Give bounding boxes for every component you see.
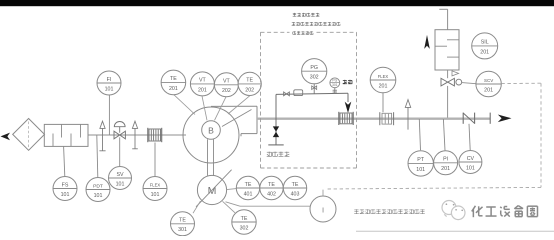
lead line to FI 101 bbox=[108, 95, 110, 135]
svg-text:PG: PG bbox=[310, 65, 318, 71]
svg-text:401: 401 bbox=[244, 191, 253, 197]
watermark logo icon bbox=[442, 201, 465, 220]
outlet flow arrow bbox=[498, 115, 512, 123]
svg-text:PI: PI bbox=[443, 157, 448, 163]
instrument bubble TE 302 bbox=[232, 210, 256, 234]
silencer vent pipe bbox=[439, 9, 447, 29]
instrument bubble VT 202 bbox=[214, 73, 238, 97]
tank outlet to control valve bbox=[448, 70, 459, 78]
controller circle I bbox=[310, 190, 336, 222]
boundary caption line 1 bbox=[293, 13, 320, 17]
svg-text:301: 301 bbox=[332, 83, 338, 87]
svg-text:202: 202 bbox=[245, 87, 254, 93]
lead line to PT 101 bbox=[419, 119, 420, 150]
boundary caption line 2 bbox=[292, 22, 341, 26]
lead line to FLEX 201 bbox=[382, 93, 384, 112]
svg-text:101: 101 bbox=[151, 192, 160, 198]
instrument bubble VT 201 bbox=[190, 72, 214, 96]
svg-text:PDT: PDT bbox=[93, 183, 103, 189]
svg-text:FLEX: FLEX bbox=[150, 182, 161, 187]
svg-text:201: 201 bbox=[198, 87, 207, 93]
instrument bubble FLEX 101 bbox=[143, 177, 167, 201]
instrument bubble TE 301 bbox=[171, 212, 195, 236]
svg-text:201: 201 bbox=[484, 87, 493, 93]
blower B (centrifugal fan volute) bbox=[183, 106, 257, 163]
lead line to PDT 101 bbox=[97, 135, 98, 177]
svg-text:101: 101 bbox=[116, 181, 125, 187]
instrument signal dashed line SCV-controller bbox=[326, 83, 541, 189]
tiny note tag bbox=[343, 80, 353, 84]
svg-text:302: 302 bbox=[310, 75, 319, 81]
flexible joint on discharge bbox=[339, 112, 353, 125]
instrument bubble SCV 201 bbox=[476, 71, 501, 96]
instrument bubble FI 101 bbox=[97, 71, 121, 95]
vent to atmosphere (left) bbox=[99, 121, 105, 151]
lead line to CV 101 bbox=[469, 124, 470, 150]
blowoff control valve bbox=[441, 78, 476, 117]
svg-text:201: 201 bbox=[480, 49, 489, 55]
svg-text:101: 101 bbox=[61, 192, 70, 198]
instrument bubble FLEX 201 bbox=[370, 67, 396, 93]
svg-text:TE: TE bbox=[241, 216, 248, 222]
svg-text:101: 101 bbox=[416, 167, 425, 173]
instrument bubble TE 402 bbox=[260, 176, 283, 199]
svg-text:202: 202 bbox=[222, 88, 231, 94]
svg-text:201: 201 bbox=[441, 166, 450, 172]
silencer tank bbox=[435, 30, 459, 70]
motor M bbox=[196, 170, 232, 207]
vent to atmosphere (right of valve) bbox=[132, 121, 138, 149]
svg-text:TE: TE bbox=[292, 182, 299, 188]
svg-text:101: 101 bbox=[105, 86, 114, 92]
instrument bubble PG 302 bbox=[302, 59, 327, 84]
instrument bubble SV 101 bbox=[109, 167, 132, 190]
instrument bubble PI 201 bbox=[434, 151, 458, 175]
nitrogen purge bypass line bbox=[276, 93, 348, 102]
svg-text:SV: SV bbox=[116, 172, 124, 178]
svg-text:TE: TE bbox=[179, 218, 186, 224]
svg-text:403: 403 bbox=[291, 191, 300, 197]
svg-text:PG: PG bbox=[332, 79, 337, 83]
inlet pipe bbox=[88, 134, 186, 136]
svg-text:TE: TE bbox=[268, 182, 275, 188]
gauge PG 301 (small) with root valve bbox=[330, 78, 340, 94]
instrument bubble TE 201 bbox=[161, 70, 186, 95]
svg-text:I: I bbox=[322, 206, 324, 215]
svg-text:201: 201 bbox=[379, 83, 388, 89]
svg-text:101: 101 bbox=[94, 193, 103, 199]
lead line to FS 101 bbox=[64, 146, 65, 176]
svg-text:B: B bbox=[208, 125, 214, 135]
svg-text:101: 101 bbox=[466, 165, 475, 171]
check valve bbox=[463, 113, 490, 124]
svg-text:CV: CV bbox=[467, 156, 475, 162]
flexible joint on inlet bbox=[148, 128, 162, 142]
expansion joint on discharge bbox=[380, 112, 394, 125]
note text bbox=[354, 209, 425, 214]
instrument bubble PDT 101 bbox=[86, 178, 110, 202]
svg-text:FI: FI bbox=[107, 77, 112, 83]
svg-text:FLEX: FLEX bbox=[378, 74, 389, 79]
inlet control valve with diaphragm actuator bbox=[114, 122, 125, 167]
boundary caption line 3 bbox=[293, 31, 314, 34]
instrument bubble TE 401 bbox=[236, 176, 259, 199]
svg-text:VT: VT bbox=[223, 79, 231, 85]
upward flow arrow bbox=[424, 35, 430, 49]
instrument bubble PT 101 bbox=[408, 151, 433, 176]
inlet flow arrow bbox=[1, 133, 11, 141]
svg-text:SCV: SCV bbox=[484, 78, 493, 83]
instrument bubble TE 403 bbox=[283, 176, 306, 199]
svg-text:SIL: SIL bbox=[481, 40, 489, 46]
vent arrow on discharge bbox=[405, 100, 410, 130]
watermark text 化工设备圈 bbox=[472, 206, 538, 218]
instrument bubble TE 202 bbox=[238, 72, 261, 95]
lead line to PI 201 bbox=[443, 119, 445, 150]
instrument bubble CV 101 bbox=[459, 151, 482, 174]
instrument lead lines into blower casing bbox=[174, 95, 250, 121]
svg-text:TE: TE bbox=[246, 78, 253, 84]
nitrogen inlet branch with shutoff valve bbox=[268, 94, 283, 144]
svg-text:302: 302 bbox=[240, 225, 249, 231]
svg-text:TE: TE bbox=[245, 182, 252, 188]
svg-text:402: 402 bbox=[267, 191, 276, 197]
discharge pipe bbox=[257, 118, 490, 120]
lead line to TE 301 bbox=[193, 201, 201, 213]
svg-text:VT: VT bbox=[199, 78, 207, 84]
gauge PG 302 stem with needle valve bbox=[312, 84, 317, 94]
lead line to TE 401 row bbox=[227, 189, 237, 190]
needle valve on bypass bbox=[284, 92, 290, 96]
label nitrogen inlet bbox=[267, 152, 290, 157]
filter diamond bbox=[13, 119, 45, 151]
downward flow arrow into flex joint bbox=[345, 102, 352, 113]
inlet louver box bbox=[44, 124, 88, 146]
svg-text:201: 201 bbox=[169, 86, 178, 92]
svg-text:FS: FS bbox=[62, 182, 69, 188]
shaft between blower and motor bbox=[208, 139, 214, 175]
lead line to TE 302 bbox=[223, 201, 236, 213]
instrument bubble SIL 201 bbox=[472, 33, 498, 59]
inline orifice/restrictor on bypass bbox=[294, 90, 303, 96]
svg-text:PT: PT bbox=[417, 157, 425, 163]
lead line from motor to controller I bbox=[226, 202, 311, 206]
lead line to FLEX 101 bbox=[154, 143, 156, 177]
svg-text:TE: TE bbox=[170, 76, 177, 82]
instrument bubble FS 101 bbox=[53, 177, 77, 201]
battery limit dashed box bbox=[261, 32, 357, 168]
svg-text:301: 301 bbox=[178, 227, 187, 233]
